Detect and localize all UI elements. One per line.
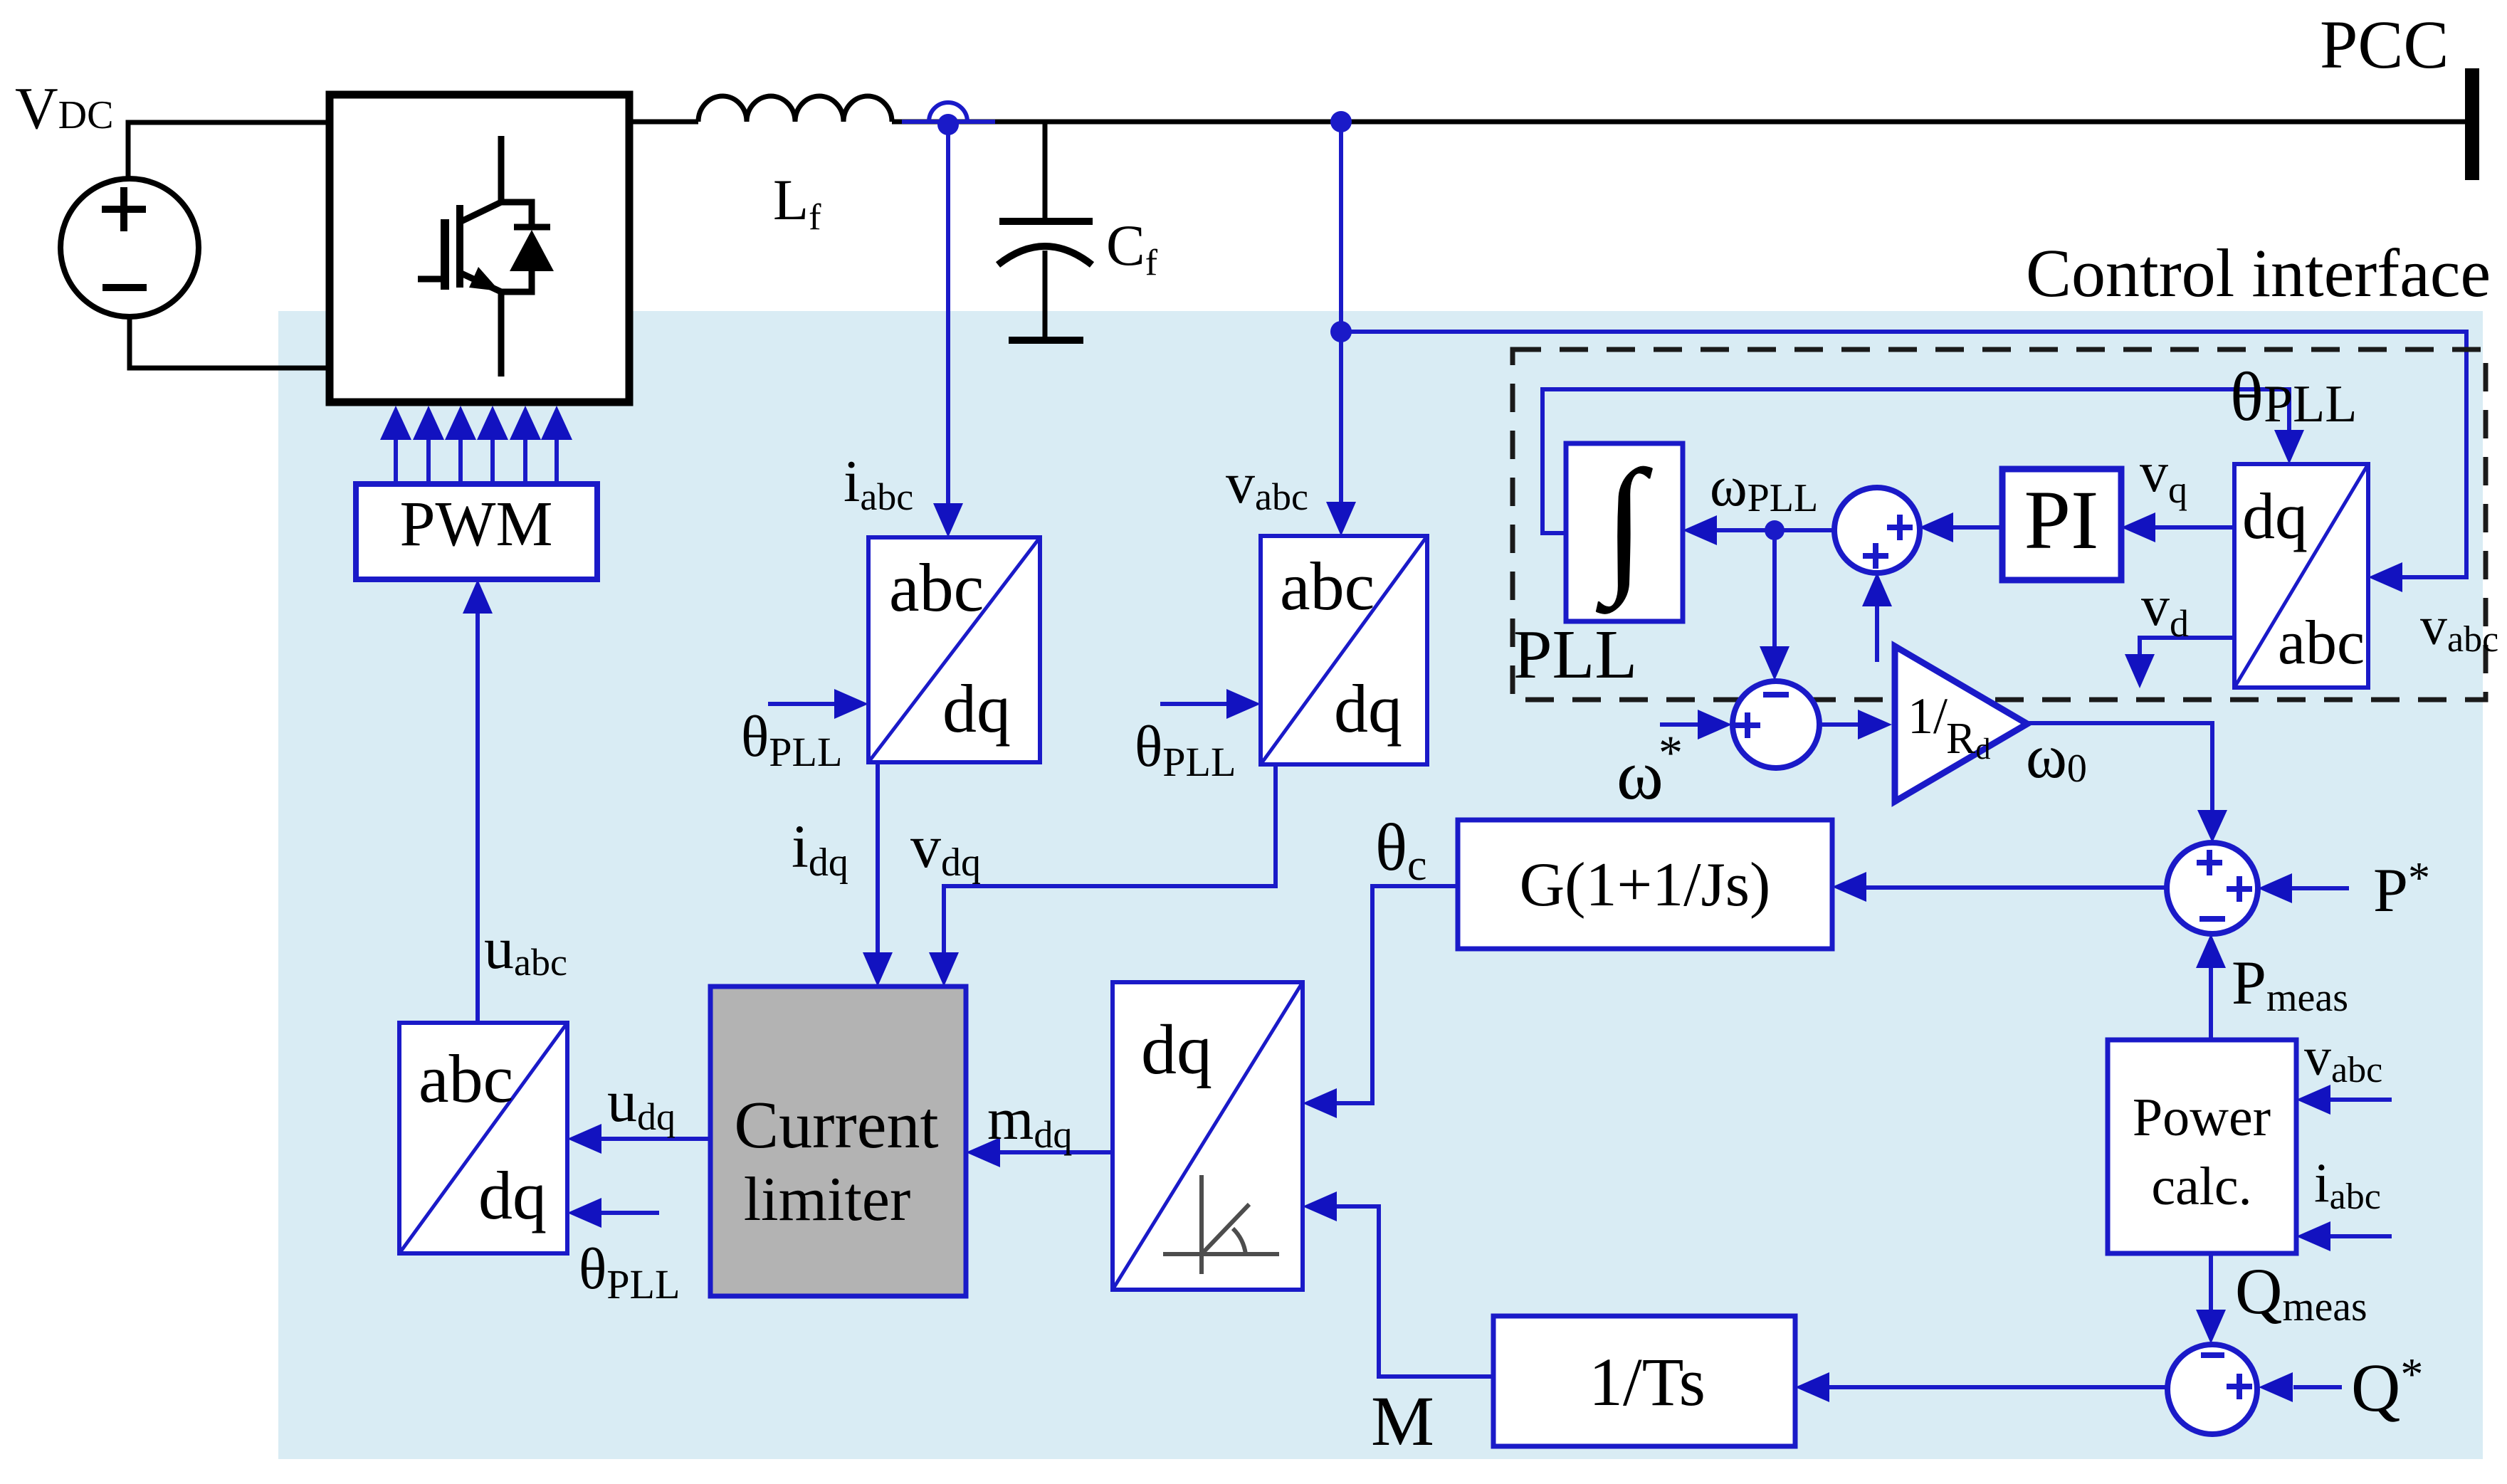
wire iabc drop bbox=[946, 125, 950, 503]
arrow thetaPLL into box3 bbox=[567, 1198, 601, 1228]
PI block bbox=[2002, 469, 2121, 580]
dq modulation block bbox=[1113, 982, 1303, 1290]
arrow Pmeas up bbox=[2196, 934, 2226, 968]
arrow into 1/Ts bbox=[1795, 1372, 1829, 1402]
arrow vabc into dq/abc bbox=[2368, 562, 2402, 592]
wire Q-star input bbox=[2293, 1385, 2342, 1389]
arrow PWM gates 6 bbox=[541, 406, 572, 440]
svg-text:calc.: calc. bbox=[2151, 1157, 2251, 1216]
control region shaded box bbox=[278, 311, 2483, 1459]
wire control interface feed bbox=[1341, 332, 2466, 577]
arrow thetaPLL into box2 bbox=[1226, 689, 1261, 719]
summing junction S4 bbox=[2167, 1344, 2257, 1434]
abc/dq block 2 (vabc) bbox=[1261, 536, 1427, 764]
arrow mdq into current limiter bbox=[966, 1137, 1000, 1167]
svg-text:dq: dq bbox=[1334, 670, 1402, 747]
dq/abc block (PLL) bbox=[2234, 464, 2368, 688]
svg-text:∫: ∫ bbox=[1595, 439, 1653, 614]
svg-text:abc: abc bbox=[419, 1041, 513, 1117]
arrow vd down bbox=[2125, 654, 2155, 688]
svg-text:abc: abc bbox=[2278, 609, 2365, 678]
wire Pmeas bbox=[2209, 968, 2213, 1040]
wire omega0 bbox=[2027, 723, 2212, 810]
svg-text:dq: dq bbox=[478, 1157, 547, 1233]
svg-text:PCC: PCC bbox=[2320, 6, 2449, 83]
svg-text:limiter: limiter bbox=[744, 1165, 911, 1234]
arrow into sum2 top bbox=[1760, 646, 1789, 680]
svg-text:dq: dq bbox=[942, 670, 1011, 747]
wire hop arc at node A bbox=[929, 102, 967, 122]
arrow vabc into power calc bbox=[2296, 1085, 2330, 1115]
wire idq bbox=[876, 762, 880, 952]
1/Ts block bbox=[1493, 1316, 1795, 1446]
wire omega feedforward into sum1 bbox=[1875, 606, 1879, 662]
wire sum3 to G block bbox=[1866, 885, 2167, 890]
wire vabc to power calc bbox=[2330, 1098, 2392, 1102]
arrow into sum1 bottom bbox=[1862, 572, 1892, 606]
power calc block bbox=[2108, 1040, 2296, 1253]
arrow into integrator bbox=[1683, 515, 1717, 545]
wire thetaPLL into box3 bbox=[601, 1211, 659, 1215]
wire M path bbox=[1337, 1206, 1493, 1377]
arrow PWM gates 3 bbox=[445, 406, 476, 440]
wire PI to sum1 bbox=[1953, 525, 2002, 530]
summing junction S3 bbox=[2167, 843, 2258, 934]
svg-text:dq: dq bbox=[1141, 1010, 1212, 1089]
arrowheads bbox=[380, 406, 2402, 1402]
ground bbox=[1009, 337, 1083, 344]
svg-text:PI: PI bbox=[2024, 473, 2099, 567]
node C dot bbox=[1330, 321, 1352, 342]
node D dot bbox=[1765, 520, 1785, 540]
G(1+1/Js) block bbox=[1458, 820, 1832, 949]
svg-text:Power: Power bbox=[2133, 1088, 2271, 1147]
wire thetaPLL into box1 bbox=[768, 702, 834, 706]
arrow into G block bbox=[1832, 872, 1866, 902]
wire inverter to inductor bbox=[629, 120, 698, 125]
wire vq bbox=[2155, 525, 2234, 530]
arrow into sum1 right bbox=[1919, 512, 1953, 542]
integrator block bbox=[1566, 443, 1683, 621]
wire mdq bbox=[1000, 1150, 1115, 1154]
inductor Lf bbox=[698, 96, 892, 122]
arrow PWM gates 2 bbox=[413, 406, 444, 440]
diode bbox=[514, 224, 550, 231]
svg-text:1/Ts: 1/Ts bbox=[1589, 1344, 1706, 1420]
wire PWM gate lines bbox=[394, 438, 398, 484]
arrow theta-c into dq block bbox=[1303, 1088, 1337, 1118]
PWM block bbox=[356, 484, 597, 579]
arrow PWM gates 4 bbox=[477, 406, 508, 440]
svg-text:1/: 1/ bbox=[1908, 688, 1948, 744]
IGBT emitter arrow bbox=[469, 267, 500, 291]
PCC terminal bbox=[2465, 68, 2479, 180]
angle icon bbox=[1163, 1175, 1279, 1274]
svg-text:ω: ω bbox=[1617, 735, 1664, 814]
current limiter block bbox=[710, 986, 966, 1296]
wire vabc drop bbox=[1339, 122, 1343, 502]
wire thetaPLL into box2 bbox=[1160, 702, 1226, 706]
wire omega-star input bbox=[1660, 722, 1698, 727]
arrow uabc into PWM bbox=[463, 579, 493, 614]
arrow thetaPLL into dq/abc top bbox=[2274, 430, 2304, 464]
arrow P-star into sum3 bbox=[2258, 873, 2292, 903]
voltage source VDC bbox=[61, 179, 199, 317]
capacitor Cf bbox=[1043, 122, 1048, 221]
arrow iabc into power calc bbox=[2296, 1221, 2330, 1251]
arrow thetaPLL into box1 bbox=[834, 689, 868, 719]
wire iabc to power calc bbox=[2330, 1234, 2392, 1238]
svg-text:abc: abc bbox=[889, 549, 984, 626]
wire sum1 to integrator bbox=[1717, 528, 1835, 532]
svg-text:dq: dq bbox=[2242, 480, 2308, 552]
svg-text:M: M bbox=[1371, 1382, 1434, 1461]
abc/dq block 1 (iabc) bbox=[868, 537, 1040, 762]
arrow PWM gates 1 bbox=[380, 406, 411, 440]
wire inductor to PCC bbox=[892, 120, 2465, 125]
summing junction S2 bbox=[1733, 681, 1819, 768]
wire sum2 to gain bbox=[1820, 722, 1858, 727]
node B dot bbox=[1330, 111, 1352, 132]
summing junction S1 bbox=[1834, 488, 1920, 573]
wire Qmeas bbox=[2209, 1253, 2213, 1310]
wire theta-c path bbox=[1337, 886, 1458, 1103]
node A dot bbox=[937, 114, 959, 135]
arrow M into dq block bbox=[1303, 1191, 1337, 1221]
svg-text:PWM: PWM bbox=[399, 489, 552, 559]
wire blue overlay at node A bbox=[902, 120, 995, 124]
wire vdq bbox=[944, 764, 1276, 952]
arrow udq into box3 bbox=[567, 1124, 601, 1154]
inverter U1 bbox=[330, 95, 629, 402]
arrow Q-star into sum4 bbox=[2259, 1372, 2293, 1402]
abc/dq block 3 (uabc) bbox=[399, 1023, 567, 1253]
wire PLL feedback theta bbox=[1542, 389, 2289, 533]
wire sum4 to 1/Ts bbox=[1829, 1385, 2167, 1389]
svg-text:abc: abc bbox=[1280, 548, 1375, 624]
svg-text:Current: Current bbox=[734, 1088, 938, 1162]
PLL dashed box bbox=[1513, 349, 2486, 700]
arrow vdq into limiter bbox=[929, 952, 959, 986]
svg-text:PLL: PLL bbox=[1513, 616, 1637, 693]
arrow omega-star into sum2 bbox=[1698, 710, 1732, 740]
gain triangle 1/Rd bbox=[1895, 646, 2027, 801]
arrow PWM gates 5 bbox=[510, 406, 541, 440]
wire VDC bottom bbox=[130, 317, 330, 368]
arrow Qmeas down bbox=[2196, 1310, 2226, 1344]
wire uabc bbox=[475, 614, 480, 1023]
arrow omega0 into sum3 bbox=[2197, 810, 2227, 843]
svg-text:G(1+1/Js): G(1+1/Js) bbox=[1520, 851, 1771, 920]
arrow iabc down bbox=[933, 503, 963, 537]
arrow into PI bbox=[2121, 512, 2155, 542]
transistor IGBT bbox=[418, 136, 532, 377]
arrow idq into limiter bbox=[863, 952, 893, 986]
svg-text:*: * bbox=[1659, 725, 1683, 779]
wire VDC top bbox=[128, 122, 330, 179]
arrow into gain triangle bbox=[1858, 710, 1892, 740]
arrow vabc down bbox=[1326, 502, 1356, 536]
wire P-star input bbox=[2292, 886, 2349, 890]
wire branch to sum2 bbox=[1772, 530, 1777, 646]
wire vd bbox=[2140, 638, 2234, 654]
svg-text:Control interface: Control interface bbox=[2026, 235, 2491, 311]
wire udq bbox=[601, 1137, 710, 1141]
